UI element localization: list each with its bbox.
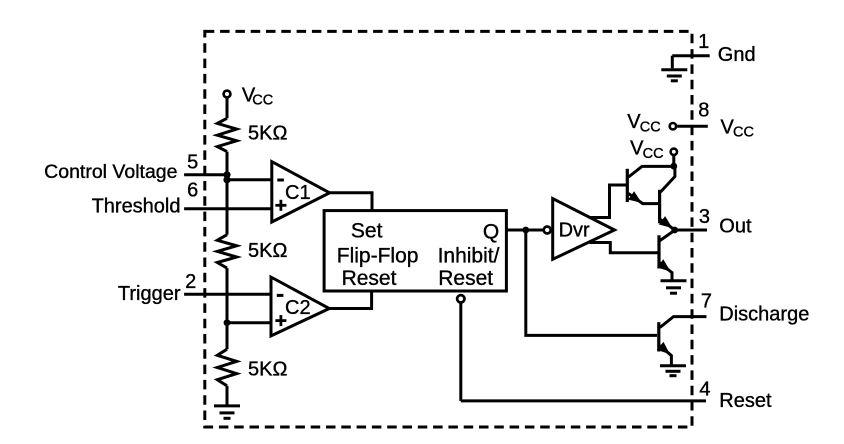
ground pin1: [661, 70, 687, 81]
svg-text:Discharge: Discharge: [719, 304, 809, 326]
wire to C1 minus input: [227, 178, 272, 181]
node dot Vcc rail: [670, 163, 677, 170]
Vcc terminal top-left: [224, 91, 231, 98]
wire pin6 threshold: [184, 207, 272, 210]
wire to C2 plus input: [227, 321, 271, 324]
driver lower branch wire: [590, 243, 658, 253]
svg-text:Control Voltage: Control Voltage: [44, 161, 177, 183]
svg-text:Flip-Flop: Flip-Flop: [337, 244, 419, 267]
svg-text:Q: Q: [483, 220, 499, 243]
transistor Q4 base bar: [657, 322, 660, 351]
wire R2 to R3: [226, 268, 229, 349]
svg-text:1: 1: [698, 31, 709, 53]
Q3 collector wire: [660, 230, 675, 241]
C1 plus sign: [275, 200, 286, 211]
svg-text:2: 2: [185, 271, 196, 293]
wire Vcc to rail node: [672, 156, 675, 166]
svg-text:CC: CC: [640, 119, 661, 135]
node dot C2 plus tap: [224, 319, 231, 326]
wire C2 output to flip-flop: [329, 291, 371, 309]
svg-text:6: 6: [187, 180, 198, 202]
resistor R2 5K: [217, 235, 236, 268]
wire C1 output to flip-flop: [330, 193, 372, 211]
resistor R1 5K: [217, 118, 236, 151]
svg-text:C2: C2: [285, 297, 311, 319]
wire pin2 trigger: [184, 293, 271, 296]
svg-text:Reset: Reset: [438, 267, 493, 290]
Dvr input bubble: [544, 227, 551, 234]
flip-flop box U1: [324, 211, 506, 291]
svg-text:5KΩ: 5KΩ: [248, 359, 287, 381]
Q4 collector wire: [660, 317, 707, 328]
svg-text:5: 5: [187, 151, 198, 173]
svg-text:Threshold: Threshold: [92, 195, 181, 217]
Q3 emitter wire: [660, 263, 673, 280]
Q1 emitter arrow: [628, 191, 642, 203]
svg-text:Set: Set: [351, 220, 383, 243]
svg-text:Reset: Reset: [342, 267, 397, 290]
Vcc terminal pin8: [670, 123, 676, 129]
wire reset down: [459, 303, 462, 401]
ground output stage: [661, 281, 687, 293]
wire pin1: [672, 54, 709, 57]
svg-text:Inhibit/: Inhibit/: [438, 244, 500, 267]
wire Q to discharge base: [526, 230, 657, 335]
driver amp Dvr: [553, 199, 615, 260]
node dot C1 minus tap: [223, 176, 230, 183]
C2 plus sign: [275, 315, 286, 326]
ground lower-left: [214, 406, 240, 418]
svg-text:Gnd: Gnd: [718, 44, 756, 66]
svg-text:CC: CC: [733, 125, 754, 141]
svg-text:C1: C1: [285, 182, 311, 204]
resistor R3 5K: [217, 349, 236, 386]
svg-text:Trigger: Trigger: [118, 283, 181, 305]
svg-text:8: 8: [698, 99, 709, 121]
Q2 emitter wire: [661, 219, 675, 230]
C2 minus sign: [277, 294, 284, 297]
transistor Q3 base bar: [657, 235, 660, 268]
wire Q output: [506, 229, 542, 232]
driver upper branch wire: [589, 185, 627, 218]
svg-text:CC: CC: [643, 146, 664, 162]
wire R3 to ground: [226, 386, 229, 405]
svg-text:7: 7: [701, 291, 712, 313]
Q2 emitter arrow: [659, 216, 673, 228]
wire reset to pin4: [461, 399, 706, 402]
node dot pin5: [223, 171, 230, 178]
comparator C1: [272, 162, 330, 222]
wire pin3: [675, 229, 707, 232]
node dot output: [671, 227, 678, 234]
svg-text:Reset: Reset: [719, 390, 772, 412]
svg-text:5KΩ: 5KΩ: [248, 122, 287, 144]
ground discharge: [660, 366, 686, 376]
svg-text:3: 3: [699, 206, 710, 228]
Q1 emitter wire: [629, 194, 659, 204]
Q4 emitter wire: [660, 346, 672, 365]
wire pin8: [677, 125, 708, 128]
wire R1 to R2: [226, 152, 229, 235]
svg-text:5KΩ: 5KΩ: [248, 240, 287, 262]
svg-text:Out: Out: [719, 216, 752, 238]
Q1 collector wire: [629, 166, 674, 177]
Q4 emitter arrow: [657, 342, 670, 354]
C1 minus sign: [277, 179, 284, 182]
Vcc terminal output stage: [671, 149, 677, 155]
node dot Q output: [522, 227, 529, 234]
inhibit/reset bubble: [457, 295, 464, 302]
transistor Q1 base bar: [626, 169, 629, 202]
transistor Q2 base bar: [658, 190, 661, 224]
wire pin5: [184, 173, 227, 176]
Q3 emitter arrow: [657, 259, 671, 271]
svg-text:CC: CC: [252, 93, 273, 109]
comparator C2: [271, 277, 329, 336]
svg-text:Dvr: Dvr: [559, 220, 590, 242]
Q2 collector wire: [661, 166, 675, 192]
wire Vcc to R1: [226, 98, 229, 118]
svg-text:4: 4: [699, 378, 710, 400]
wire gnd drop: [671, 56, 674, 69]
dashed chip boundary: [205, 31, 692, 427]
